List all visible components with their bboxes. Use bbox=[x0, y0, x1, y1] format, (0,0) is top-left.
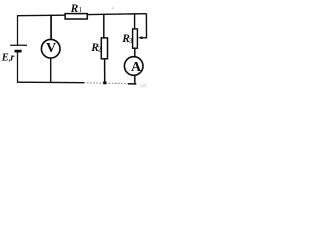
voltmeter V (circle) bbox=[41, 39, 60, 58]
ammeter A (circle) bbox=[124, 57, 143, 76]
svg-text:2: 2 bbox=[98, 46, 102, 54]
battery E,r long plate (positive) bbox=[10, 44, 27, 46]
wire: R2 bottom stub down to bottom bus bbox=[104, 59, 106, 83]
svg-text:V: V bbox=[46, 41, 56, 56]
wire: R3 bottom stub down to ammeter bbox=[134, 48, 136, 56]
svg-text:om: om bbox=[140, 83, 147, 89]
wire: left vertical from top-left corner down to battery bbox=[17, 15, 19, 45]
svg-text:1: 1 bbox=[79, 6, 83, 14]
svg-text:R: R bbox=[70, 3, 79, 15]
wire: R3 branch from top bus down to R3 bbox=[134, 13, 136, 29]
wire: bottom bus faint dotted middle section bbox=[84, 82, 128, 85]
wire: ammeter bottom stub down to bottom bus bbox=[134, 76, 136, 85]
wire: voltmeter branch from top bus down to voltmeter bbox=[50, 15, 52, 40]
resistor R1 (box on top bus) bbox=[65, 14, 87, 19]
resistor R2 (vertical box) bbox=[101, 38, 107, 59]
svg-text:3: 3 bbox=[129, 37, 133, 45]
svg-text:A: A bbox=[131, 60, 142, 75]
battery E,r short thick plate (negative) bbox=[15, 50, 22, 53]
wire: bottom bus solid left section bbox=[17, 81, 84, 84]
node: junction of R2 branch with bottom bus bbox=[103, 81, 106, 84]
wire: voltmeter bottom stub down to bottom bus bbox=[50, 58, 52, 83]
rheostat R3 (vertical box) bbox=[133, 29, 138, 48]
wire: R2 branch from top bus down to R2 bbox=[103, 14, 105, 39]
wire: top bus from left corner to right corner bbox=[18, 14, 147, 16]
wire: bottom bus solid right section to ammeter stub bbox=[128, 83, 136, 85]
wire: right vertical from top-right corner down to slider arrow bbox=[142, 13, 147, 37]
wire: left vertical from battery down to bottom-left corner bbox=[17, 52, 19, 84]
stray scan dot bbox=[112, 7, 114, 9]
rheostat slider arrowhead pointing left into R3 bbox=[138, 36, 142, 39]
